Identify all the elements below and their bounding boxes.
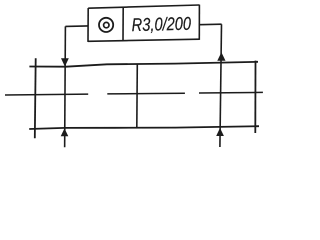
feature control frame top edge (88, 5, 199, 8)
leader/section line left vertical (64, 26, 67, 147)
feature control frame cell divider (122, 7, 124, 41)
feature control frame right edge (198, 5, 200, 40)
leader/section line right vertical (220, 24, 222, 147)
centerline dash 2 (107, 92, 185, 95)
middle section line (136, 64, 139, 129)
arrow down at left section onto top surface (61, 58, 69, 66)
feature control frame left edge (87, 8, 89, 42)
feature control frame bottom edge (88, 39, 199, 41)
leader line right horizontal (199, 23, 221, 26)
arrow up at right section onto bottom surface (216, 128, 224, 136)
svg-text:R3,0/200: R3,0/200 (131, 13, 192, 35)
leader line left horizontal (65, 25, 88, 28)
shaft left edge (34, 58, 37, 138)
runout symbol inner circle (104, 22, 109, 27)
arrow up at left section onto bottom surface (61, 128, 69, 136)
runout symbol outer circle (99, 18, 113, 32)
centerline dash 3 (199, 91, 263, 94)
shaft top edge (29, 62, 258, 67)
centerline dash 1 (5, 93, 88, 96)
arrow up at right section above top surface (217, 52, 225, 61)
shaft bottom edge (29, 126, 259, 129)
shaft right edge (254, 61, 256, 133)
